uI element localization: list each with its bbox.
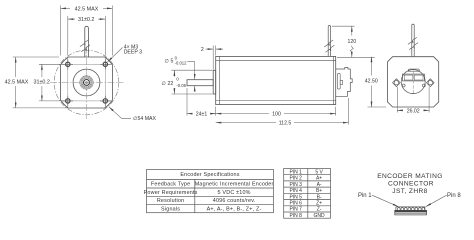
svg-text:120: 120 — [347, 39, 356, 45]
dim 24±1 — [187, 88, 216, 116]
dim 42.5 MAX (top horizontal) — [61, 6, 113, 56]
dim Ø5 0/-0.012 with leader — [187, 62, 194, 92]
svg-text:31±0.2: 31±0.2 — [78, 17, 94, 23]
small screws — [402, 84, 405, 87]
svg-text:∅54 MAX: ∅54 MAX — [133, 116, 157, 122]
svg-text:Magnetic Incremental Encoder: Magnetic Incremental Encoder — [195, 181, 274, 187]
bolt-hole centerlines — [67, 58, 69, 107]
connector body (JST ZHR8) — [395, 207, 427, 215]
svg-text:Pin 8: Pin 8 — [447, 193, 461, 199]
svg-text:Power Requirements: Power Requirements — [144, 190, 198, 196]
svg-text:26.02: 26.02 — [407, 108, 420, 114]
svg-text:A-: A- — [317, 182, 322, 188]
dim 26.02 (rear view bottom) — [397, 87, 429, 113]
dim Ø22 0/-0.05 — [172, 70, 213, 94]
svg-text:24±1: 24±1 — [196, 112, 208, 118]
center lines front view — [50, 47, 124, 120]
motor body front outline (square with corner arcs) — [61, 57, 113, 108]
svg-text:5 VDC ±10%: 5 VDC ±10% — [218, 190, 251, 196]
mounting hole top-left — [63, 59, 73, 69]
svg-text:PIN 6: PIN 6 — [289, 201, 302, 207]
svg-text:Encoder Specifications: Encoder Specifications — [180, 172, 239, 178]
svg-text:ENCODER MATING: ENCODER MATING — [377, 173, 443, 180]
svg-text:Pin 1: Pin 1 — [358, 193, 372, 199]
svg-text:Signals: Signals — [161, 206, 180, 212]
leader pin 1 — [372, 195, 447, 207]
svg-text:-0.012: -0.012 — [175, 60, 188, 65]
dim 42.50 (rear view left) — [368, 57, 387, 107]
label 4x M3 DEEP 3 with leader — [108, 48, 123, 62]
bottom notch — [412, 93, 415, 95]
label Ø54 MAX with leader — [109, 107, 131, 119]
encoder housing (side view rear) — [336, 68, 353, 97]
connector housing rect — [403, 74, 425, 81]
dim 31±0.2 (top horizontal) — [68, 16, 106, 56]
svg-text:PIN 8: PIN 8 — [289, 213, 302, 219]
svg-text:42.5 MAX: 42.5 MAX — [5, 79, 29, 85]
svg-text:42.50: 42.50 — [365, 78, 378, 84]
svg-text:2: 2 — [201, 47, 204, 53]
rear body outline (octagon with 45° chamfers) — [388, 57, 439, 107]
wire break (rear view) — [408, 37, 418, 49]
svg-text:-0.05: -0.05 — [176, 83, 186, 88]
svg-text:PIN 7: PIN 7 — [289, 207, 302, 213]
svg-text:CONNECTOR: CONNECTOR — [388, 181, 434, 188]
phantom circle D54 MAX — [54, 50, 119, 115]
svg-text:112.5: 112.5 — [279, 121, 292, 127]
svg-text:31±0.2: 31±0.2 — [33, 79, 49, 85]
dim 100 — [216, 107, 336, 116]
inner lines top/bottom — [216, 59, 336, 61]
svg-text:A+: A+ — [316, 176, 322, 182]
encoder cover circle — [393, 69, 435, 94]
shaft break symbol (front) — [80, 40, 90, 52]
svg-text:4096 counts/rev.: 4096 counts/rev. — [213, 198, 256, 204]
shaft (front view, pointing up) — [85, 26, 89, 57]
svg-text:PIN 5: PIN 5 — [289, 194, 302, 200]
motor body side outline — [216, 56, 336, 104]
dim 2 (boss protrusion) — [206, 46, 224, 70]
svg-text:JST, ZHR8: JST, ZHR8 — [392, 188, 427, 195]
svg-text:DEEP 3: DEEP 3 — [124, 50, 142, 56]
dim 42.5 MAX (left vertical) — [13, 57, 69, 108]
boss (side view) — [213, 70, 216, 94]
wire break symbol (side view) — [324, 40, 334, 52]
svg-text:PIN 1: PIN 1 — [289, 169, 302, 175]
svg-text:B+: B+ — [316, 188, 322, 194]
mounting hole bottom-right — [100, 96, 110, 106]
shaft (side view) — [187, 80, 213, 86]
svg-text:100: 100 — [272, 112, 281, 118]
svg-text:Feedback Type: Feedback Type — [151, 181, 190, 187]
svg-text:∅ 5: ∅ 5 — [165, 59, 174, 65]
dim 31±0.2 (left vertical) — [39, 64, 64, 101]
mounting hole bottom-left — [63, 96, 73, 106]
dim 120 (wire length) — [332, 26, 375, 57]
svg-text:Resolution: Resolution — [157, 198, 184, 204]
svg-text:PIN 4: PIN 4 — [289, 188, 302, 194]
svg-text:A+, A-, B+, B-, Z+, Z-: A+, A-, B+, B-, Z+, Z- — [207, 206, 262, 212]
svg-text:∅ 22: ∅ 22 — [162, 81, 174, 87]
svg-text:B-: B- — [317, 194, 322, 200]
svg-text:42.5 MAX: 42.5 MAX — [75, 6, 99, 12]
boss circles — [73, 69, 100, 96]
front cap line — [218, 56, 220, 104]
mounting hole top-right — [100, 59, 110, 69]
svg-text:Z+: Z+ — [316, 201, 322, 207]
connector centerline — [412, 71, 414, 94]
svg-text:GND: GND — [314, 213, 326, 219]
svg-text:PIN 2: PIN 2 — [289, 176, 302, 182]
wire (side view) — [328, 26, 330, 57]
svg-text:Z-: Z- — [317, 207, 322, 213]
wire (rear view) — [412, 24, 414, 56]
svg-text:5 V: 5 V — [315, 169, 323, 175]
left clamp diamond — [393, 79, 401, 87]
svg-text:PIN 3: PIN 3 — [289, 182, 302, 188]
right clamp diamond — [427, 79, 435, 87]
rear cap line — [333, 56, 335, 104]
dim 112.5 — [216, 98, 349, 125]
